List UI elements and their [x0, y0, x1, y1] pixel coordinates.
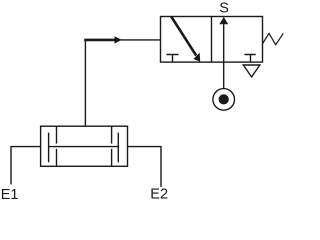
two-pressure valve right seat	[111, 126, 113, 166]
two-pressure valve left piston bar	[48, 133, 50, 163]
compressed air source	[213, 89, 235, 111]
valve V1 right box blocked port T symbol	[244, 55, 255, 63]
svg-text:E2: E2	[150, 187, 168, 203]
two-pressure valve (AND) body	[41, 126, 128, 166]
two-pressure valve left seat	[56, 126, 58, 166]
two-pressure valve right piston bar	[117, 133, 119, 163]
wire: supply line from source to valve	[223, 62, 225, 89]
valve V1 position divider	[211, 17, 213, 63]
wire: E1 lead	[11, 147, 41, 185]
svg-text:E1: E1	[1, 187, 19, 203]
valve V1 left box blocked port T symbol	[167, 55, 179, 63]
valve V1 exhaust triangle	[243, 65, 260, 77]
valve V1 left box flow path arrow (diagonal, bold)	[171, 17, 200, 62]
flow direction arrow on pilot line (bold)	[84, 36, 122, 43]
valve V1 body (3/2-way valve, two position boxes)	[161, 17, 263, 63]
valve V1 return spring	[262, 33, 283, 44]
wire: E2 lead	[128, 147, 162, 187]
valve V1 right box flow path arrow (vertical, up)	[219, 17, 228, 62]
svg-text:S: S	[219, 1, 229, 17]
two-pressure valve shuttle middle bar	[49, 146, 119, 148]
wire: pilot line from two-pressure valve to valve V1	[85, 40, 160, 126]
